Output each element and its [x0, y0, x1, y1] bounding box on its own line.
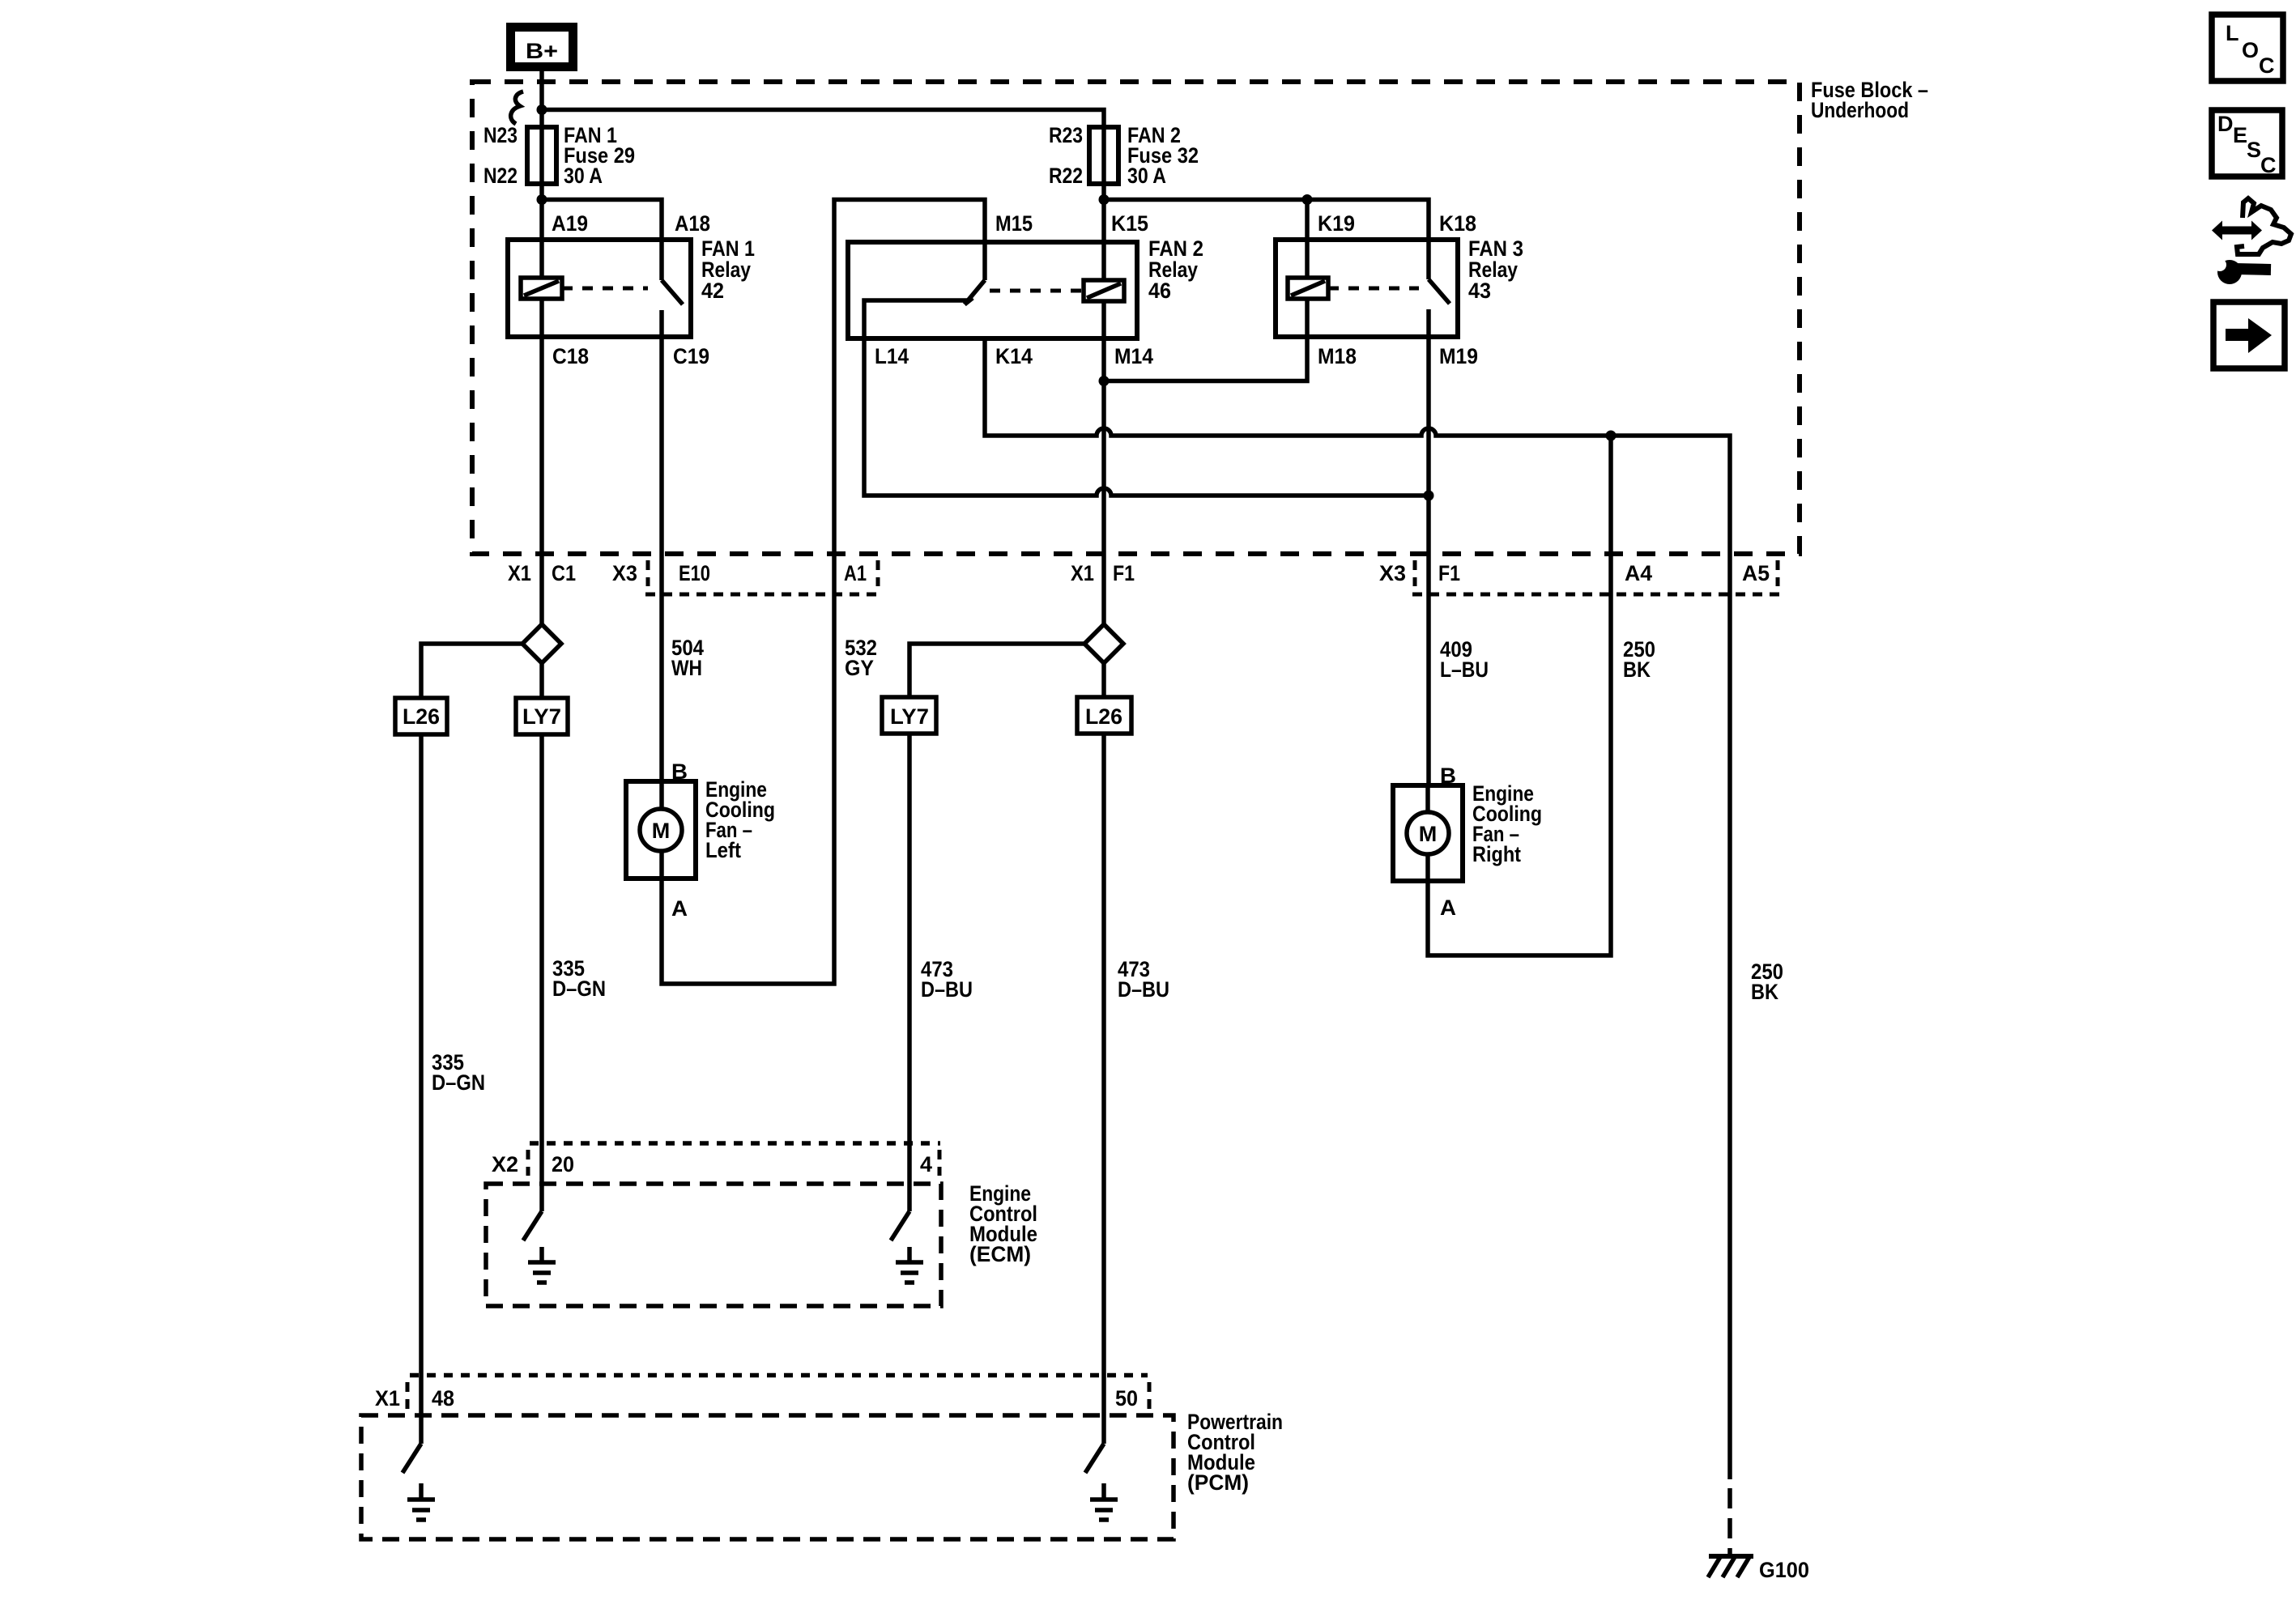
icon DESC box — [2212, 110, 2282, 177]
PCM pin 50 switch to ground — [1085, 1444, 1118, 1520]
svg-text:Underhood: Underhood — [1811, 98, 1909, 122]
fuse FAN 1 Fuse 29 30 A — [483, 123, 635, 200]
relay 42 coil — [521, 278, 562, 299]
svg-text:WH: WH — [671, 656, 702, 680]
wire L14 run to M19 junction — [864, 338, 1429, 496]
svg-text:30 A: 30 A — [1127, 164, 1166, 188]
wire C19 to E10 connector to left fan B — [659, 337, 664, 781]
motor engine cooling fan left — [626, 759, 775, 921]
wire K15 coil bottom M14 — [1101, 301, 1106, 381]
node junction at B+ bus — [537, 104, 547, 115]
relay 46 switch blade — [965, 280, 985, 304]
svg-text:LY7: LY7 — [890, 704, 929, 729]
node junction L14/M19 — [1424, 491, 1434, 501]
svg-text:A: A — [1440, 896, 1456, 920]
relay 46 switch lower contact — [864, 300, 969, 338]
svg-text:C18: C18 — [552, 344, 589, 368]
svg-text:46: 46 — [1148, 279, 1171, 303]
svg-text:D–BU: D–BU — [921, 977, 973, 1002]
fusible-link squiggle — [511, 91, 523, 124]
svg-text:LY7: LY7 — [522, 704, 561, 729]
svg-text:K18: K18 — [1439, 211, 1476, 236]
svg-text:D–GN: D–GN — [432, 1070, 485, 1095]
svg-text:50: 50 — [1115, 1386, 1138, 1410]
ECM dashed box — [486, 1181, 1037, 1306]
ECM connector strip — [492, 1143, 940, 1176]
fuse block underhood (dashed boundary) — [472, 78, 1928, 554]
svg-text:X1: X1 — [1071, 561, 1094, 585]
wire label 335 D-GN (ECM side) — [552, 956, 606, 1001]
icon hand double arrow — [2212, 221, 2262, 240]
connector code L26 (middle) — [1077, 697, 1131, 734]
node junction below fuse 32 — [1099, 194, 1110, 205]
svg-text:C: C — [2260, 153, 2277, 177]
connector code LY7 (middle) — [882, 697, 936, 734]
svg-text:M: M — [652, 819, 671, 843]
svg-text:R23: R23 — [1049, 123, 1083, 147]
wire A5 250 BK down to G100 — [1727, 554, 1732, 1556]
ECM pin 4 switch to ground — [891, 1211, 923, 1283]
svg-text:48: 48 — [432, 1386, 454, 1410]
svg-text:C19: C19 — [673, 344, 709, 368]
svg-text:M15: M15 — [995, 211, 1033, 236]
splice diamond (F1 wire) — [1084, 624, 1123, 663]
wire LY7 branch down to ECM 4 — [907, 734, 912, 1211]
connector X1 C1 label — [508, 561, 576, 585]
svg-text:L26: L26 — [1085, 704, 1122, 729]
svg-text:D–BU: D–BU — [1118, 977, 1169, 1002]
svg-text:L14: L14 — [875, 344, 909, 368]
svg-text:A19: A19 — [552, 211, 588, 236]
svg-text:M18: M18 — [1318, 344, 1357, 368]
wire M15 feed from A1 riser — [834, 200, 985, 555]
PCM dashed box — [361, 1410, 1283, 1539]
svg-text:BK: BK — [1751, 980, 1778, 1004]
relay 43 control dashed link — [1328, 287, 1419, 291]
svg-text:20: 20 — [552, 1152, 574, 1176]
svg-text:GY: GY — [845, 656, 874, 680]
node junction at K19 tap — [1302, 194, 1313, 205]
wire M14 down to F1 connector and splice — [1101, 381, 1106, 625]
wire label 473 D-BU (ECM side) — [921, 957, 973, 1002]
svg-text:A18: A18 — [675, 211, 710, 236]
svg-text:C1: C1 — [552, 561, 576, 585]
svg-text:L–BU: L–BU — [1440, 657, 1489, 682]
wire label 532 GY — [845, 636, 877, 680]
svg-text:A: A — [671, 896, 688, 921]
svg-text:F1: F1 — [1438, 561, 1460, 585]
connector X3 F1 A4 A5 labels (right) — [1379, 560, 1780, 594]
ground G100 — [1708, 1556, 1809, 1582]
PCM connector strip — [375, 1376, 1149, 1411]
svg-text:M19: M19 — [1439, 344, 1478, 368]
svg-text:4: 4 — [920, 1152, 932, 1176]
svg-text:X1: X1 — [375, 1386, 400, 1410]
icon LOC box — [2212, 15, 2283, 81]
svg-text:X2: X2 — [492, 1152, 518, 1176]
svg-text:M: M — [1419, 822, 1438, 846]
node junction at A4 tap — [1606, 431, 1617, 441]
wire label 250 BK (A4) — [1623, 637, 1655, 682]
svg-text:BK: BK — [1623, 657, 1651, 682]
node junction below fuse 29 — [537, 194, 547, 205]
battery feed B+ — [506, 23, 577, 71]
wire label 335 D-GN (PCM side) — [432, 1050, 485, 1095]
svg-text:A4: A4 — [1625, 561, 1652, 585]
svg-text:E: E — [2233, 123, 2247, 147]
wire K15 into relay46 coil — [1101, 200, 1106, 281]
connector code LY7 (left) — [516, 698, 568, 734]
fuse FAN 2 Fuse 32 30 A — [1049, 123, 1199, 200]
relay 43 switch blade — [1429, 279, 1450, 304]
svg-text:D–GN: D–GN — [552, 976, 606, 1001]
wire K14 run to right (over hops) to A4/A5 corner — [985, 338, 1730, 554]
wire L26 branch down to PCM 48 — [419, 734, 424, 1444]
relay 42 control dashed link — [562, 287, 648, 291]
svg-text:G100: G100 — [1759, 1558, 1809, 1582]
wire splice down through L26 (middle) — [1101, 663, 1106, 1444]
wire label 504 WH — [671, 636, 704, 680]
relay 43 coil — [1288, 278, 1328, 299]
svg-text:43: 43 — [1468, 279, 1491, 303]
icon wrench — [2213, 258, 2271, 284]
svg-text:L26: L26 — [403, 704, 440, 729]
svg-text:(PCM): (PCM) — [1187, 1470, 1249, 1495]
connector X3 E10 label — [612, 560, 710, 586]
relay 46 FAN 2 Relay — [848, 211, 1203, 368]
relay 43 switch lower contact — [1426, 309, 1431, 337]
svg-text:42: 42 — [701, 279, 724, 303]
wire splice down through LY7 — [539, 663, 544, 1211]
wire C18 to C1 connector and splice — [539, 299, 544, 624]
wire K19 drop into relay 43 coil — [1305, 200, 1310, 280]
svg-text:O: O — [2242, 38, 2259, 62]
svg-text:F1: F1 — [1113, 561, 1135, 585]
svg-text:D: D — [2217, 112, 2234, 136]
wire A19 into relay42 coil — [539, 200, 544, 279]
wire label 473 D-BU (PCM side) — [1118, 957, 1169, 1002]
node junction M14 — [1099, 376, 1110, 386]
ECM pin 20 switch to ground — [523, 1211, 556, 1283]
wire fuse29 to relay42 A18 — [542, 200, 662, 281]
relay 43 FAN 3 Relay — [1276, 211, 1523, 368]
svg-text:Left: Left — [705, 838, 741, 862]
svg-text:N23: N23 — [483, 123, 518, 147]
wire label 409 L-BU — [1440, 637, 1489, 682]
svg-text:N22: N22 — [483, 164, 518, 188]
icon arrow box — [2213, 302, 2285, 368]
wire B+ down to fuse 29 — [539, 71, 544, 130]
connector code L26 (left) — [395, 698, 447, 734]
icon hand outline — [2237, 198, 2291, 254]
svg-text:X3: X3 — [612, 561, 637, 585]
wire A1 532 GY down to left fan A — [662, 554, 834, 984]
svg-text:E10: E10 — [679, 561, 710, 585]
motor engine cooling fan right — [1393, 764, 1542, 920]
svg-text:X3: X3 — [1379, 561, 1406, 585]
wire label 250 BK (A5 to G100) — [1751, 959, 1783, 1004]
wire top bus to fuse 32 — [542, 110, 1104, 130]
svg-text:R22: R22 — [1049, 164, 1083, 188]
svg-text:K19: K19 — [1318, 211, 1355, 236]
wire A4 branch down to right fan A — [1428, 436, 1611, 955]
relay 46 coil — [1084, 280, 1124, 301]
svg-text:L: L — [2226, 21, 2239, 45]
svg-text:S: S — [2247, 138, 2261, 162]
svg-text:A1: A1 — [844, 561, 867, 585]
svg-text:K15: K15 — [1111, 211, 1148, 236]
svg-text:(ECM): (ECM) — [969, 1242, 1031, 1266]
svg-text:30 A: 30 A — [564, 164, 603, 188]
wire splice to L26 branch (left) — [421, 644, 522, 698]
svg-text:K14: K14 — [995, 344, 1033, 368]
connector X1 F1 label (middle) — [1071, 561, 1135, 585]
svg-text:B+: B+ — [526, 39, 558, 63]
wire fuse32 bus to relay43 K19/K18 — [1104, 200, 1429, 280]
relay 42 switch lower contact — [659, 310, 664, 337]
svg-text:Right: Right — [1472, 842, 1521, 866]
svg-text:X1: X1 — [508, 561, 531, 585]
PCM pin 48 switch to ground — [403, 1444, 435, 1520]
wire M19 to F1 connector to right fan B — [1426, 337, 1431, 785]
relay 46 control dashed link — [990, 289, 1084, 293]
svg-text:M14: M14 — [1114, 344, 1153, 368]
svg-text:A5: A5 — [1742, 561, 1770, 585]
svg-text:C: C — [2259, 53, 2275, 78]
wire M14 to M18 relay43 coil bottom — [1104, 299, 1307, 381]
splice diamond (C1 wire) — [522, 624, 561, 663]
wire splice to LY7 branch (middle) — [909, 644, 1084, 698]
connector A1 label — [645, 560, 883, 594]
relay 42 switch blade — [662, 280, 683, 304]
relay 42 FAN 1 Relay — [508, 211, 755, 368]
